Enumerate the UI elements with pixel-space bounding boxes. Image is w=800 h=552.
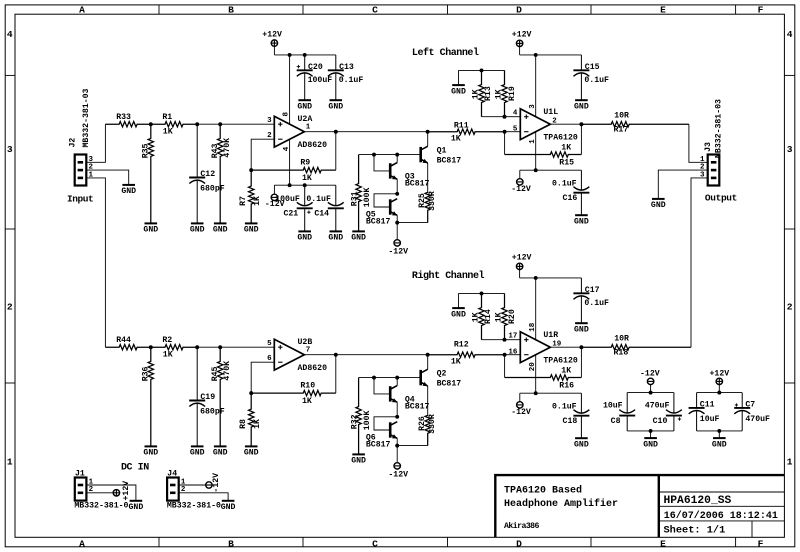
svg-text:GND: GND [244,226,259,235]
junction Q2 collector node [426,353,430,357]
svg-text:1K: 1K [163,127,173,136]
wire -12V cap bottom rail [627,430,674,432]
ground GND at R43 [213,223,228,234]
junction +12V cap gnd [717,429,721,433]
svg-text:470uF: 470uF [645,402,670,411]
capacitor C17 0.1uF [573,278,609,323]
wire Q3 base [374,155,390,171]
junction U1L pin1 supply [534,168,538,172]
junction U1L inverting node [503,130,507,134]
svg-text:R20: R20 [508,309,517,324]
ground GND at R8 [244,446,259,457]
svg-text:GND: GND [121,187,136,196]
svg-text:10uF: 10uF [603,402,623,411]
junction node after R44 [149,345,153,349]
svg-text:GND: GND [213,226,228,235]
resistor R44 [105,336,150,350]
svg-text:C10: C10 [653,417,668,426]
title block frame [495,475,784,537]
svg-text:+12V: +12V [262,31,282,40]
wire to gnd [650,431,652,438]
wire Q4 base [374,378,390,394]
capacitor C7 470uF [734,393,770,431]
svg-text:J4: J4 [167,470,177,479]
power -12V at U1R [511,393,531,417]
svg-text:BC817: BC817 [405,403,430,412]
svg-text:C21: C21 [283,210,298,219]
svg-text:Q2: Q2 [437,369,447,378]
svg-text:R19: R19 [508,86,517,101]
resistor R35 [142,124,154,223]
svg-text:1K: 1K [561,143,571,152]
svg-text:GND: GND [574,326,589,335]
op-amp U1L TPA6120 [513,104,578,144]
svg-text:GND: GND [297,234,312,243]
svg-text:GND: GND [451,87,466,96]
svg-text:R11: R11 [454,122,469,131]
junction R9 left node [249,168,253,172]
svg-text:R1: R1 [162,113,172,122]
svg-text:BC817: BC817 [366,218,391,227]
svg-text:E: E [660,4,666,15]
resistor R2 1K [151,336,197,359]
wire base rail right [359,377,421,379]
transistor Q6 BC817 [366,422,398,450]
svg-text:1K: 1K [302,174,312,183]
svg-text:1: 1 [7,457,13,468]
svg-text:0.1uF: 0.1uF [584,299,609,308]
wire U2A output [304,131,427,133]
junction R20 bottom [503,338,507,342]
ground GND at C18 [574,438,589,449]
wire node C12 to R43 node [197,123,220,125]
wire J3 pin2 to ground [658,170,707,199]
svg-text:C13: C13 [339,63,354,72]
svg-text:1K: 1K [561,366,571,375]
svg-text:100uF: 100uF [275,195,300,204]
svg-text:2: 2 [787,302,793,313]
connector J3 (MB332-381-03) Output [700,99,737,203]
svg-text:J2: J2 [69,138,78,148]
ground GND at R7 [244,223,259,234]
junction R13 top [480,68,484,72]
svg-text:BC817: BC817 [437,380,462,389]
svg-text:GND: GND [190,449,205,458]
ground GND at divider L [451,85,466,96]
svg-text:U2A: U2A [298,115,313,124]
heading Right Channel [412,270,485,282]
ground GND at R31 [351,231,366,242]
ground GND at R45 [213,446,228,457]
capacitor C21 100uF [275,185,312,231]
resistor R36 [142,347,154,446]
svg-text:4: 4 [787,29,793,40]
svg-text:R13: R13 [484,86,493,101]
resistor R12 1K [428,341,505,367]
svg-text:3: 3 [787,144,793,155]
svg-text:R18: R18 [614,349,629,358]
svg-text:17: 17 [508,333,517,341]
svg-text:U1L: U1L [543,108,558,117]
wire +12V rail to C17 [520,277,582,279]
wire U2B pin6 to feedback node [251,362,274,393]
junction U2B output node [334,353,338,357]
svg-text:GND: GND [351,457,366,466]
wire R15 to U1L output [580,124,582,154]
svg-text:GND: GND [143,449,158,458]
resistor R31 100K [350,155,372,232]
ground GND at C17 [574,323,589,334]
svg-text:MB332-381-0: MB332-381-0 [167,502,221,511]
svg-text:Input: Input [67,193,93,204]
svg-text:C17: C17 [585,286,600,295]
transistor Q2 BC817 [421,369,462,388]
svg-text:0.1uF: 0.1uF [584,76,609,85]
svg-text:BC817: BC817 [405,180,430,189]
resistor R43 470K [211,124,232,223]
svg-text:C15: C15 [585,63,600,72]
svg-text:470K: 470K [223,138,232,158]
svg-text:1K: 1K [253,419,262,429]
svg-text:+12V: +12V [512,31,532,40]
power +12V at U2A [262,31,282,55]
wire J1 pin1 to ground [86,485,135,501]
svg-text:D: D [516,4,522,15]
wire Q1 collector [427,132,429,147]
svg-text:R26: R26 [418,416,427,431]
capacitor C18 0.1uF [552,393,589,438]
resistor R7 1K [239,170,262,223]
wire Q4 emitter [396,402,398,417]
svg-text:C8: C8 [611,417,621,426]
svg-text:3: 3 [7,144,13,155]
svg-text:C: C [372,538,378,549]
wire Q3 collector [396,155,398,163]
wire to gnd2 [718,431,720,438]
wire R17 to J3 pin 1 [689,124,708,162]
svg-text:U2B: U2B [298,338,313,347]
svg-text:BC817: BC817 [437,157,462,166]
svg-text:GND: GND [574,441,589,450]
svg-text:0.1uF: 0.1uF [552,180,577,189]
ground GND at C16 [574,215,589,226]
wire Q6 base [374,417,397,430]
wire divider top rail right [459,292,505,294]
svg-text:AD8620: AD8620 [298,141,328,150]
svg-text:1K: 1K [163,350,173,359]
resistor R10 1K feedback [251,381,336,406]
wire J2 pin2 to ground [86,170,128,185]
ground GND at C12 [190,223,205,234]
junction node C19 [195,345,199,349]
op-amp U2B AD8620 [267,338,327,373]
svg-text:GND: GND [574,103,589,112]
power -12V at Q5 [388,223,408,257]
ground GND at divider R [451,308,466,319]
ground GND at R36 [143,446,158,457]
svg-text:GND: GND [244,449,259,458]
resistor R20 1K [495,293,518,339]
svg-text:GND: GND [190,226,205,235]
svg-text:16: 16 [508,348,518,356]
power -12V at Q6 [388,446,408,480]
svg-text:2: 2 [7,302,13,313]
ground GND at C13 [328,100,343,111]
svg-text:10uF: 10uF [700,415,720,424]
resistor R32 100K [350,378,372,455]
junction U2A pin4 supply [288,183,292,187]
op-amp U2A AD8620 [267,112,327,152]
wire emitter node to R25 bottom [397,222,428,224]
wire J1 pin2 to +12V [86,492,113,494]
junction Q1 collector node [426,130,430,134]
capacitor C13 0.1uF [328,55,364,100]
capacitor C20 100uF [297,55,333,100]
junction node R45 [218,345,222,349]
junction Q6 collector node [395,415,399,419]
power -12V at C8 C10 [640,370,660,393]
junction U1R inverting node [503,353,507,357]
svg-text:GND: GND [574,218,589,227]
wire Q5 emitter to -12V node [396,215,398,222]
wire -12V rail to C16 [520,169,582,171]
svg-text:C16: C16 [563,194,578,203]
junction node C12 [195,122,199,126]
title text date [664,510,778,522]
ground GND at C21 [297,231,312,242]
ground GND at R32 [351,454,366,465]
svg-text:C20: C20 [308,63,323,72]
svg-text:R45: R45 [211,366,220,381]
power +12V at J1 [113,481,131,501]
svg-text:F: F [758,4,764,15]
junction Q3 base node [372,153,376,157]
svg-text:B: B [228,538,234,549]
svg-text:TPA6120: TPA6120 [543,357,577,366]
junction U1R pin20 supply [534,391,538,395]
svg-text:1: 1 [700,156,705,164]
ground GND at J3 pin2 [651,199,666,210]
heading Left Channel [412,47,479,59]
svg-text:Sheet: 1/1: Sheet: 1/1 [664,524,726,536]
ground GND at C14 [328,231,343,242]
svg-text:1K: 1K [495,89,504,99]
svg-text:Q1: Q1 [437,146,447,155]
junction R14 top [480,291,484,295]
svg-text:Right Channel: Right Channel [412,270,485,282]
resistor R16 1K [505,366,582,390]
svg-text:100K: 100K [363,411,372,431]
svg-text:470uF: 470uF [745,415,770,424]
resistor R25 330R [418,191,437,222]
svg-text:U1R: U1R [543,331,558,340]
svg-text:TPA6120: TPA6120 [543,134,577,143]
wire R9 to U2A output node [335,132,337,170]
junction U1L output node [579,122,583,126]
wire J2 pin1 down to right channel input [86,178,105,347]
wire Q3 emitter [396,179,398,194]
power +12V at U1R [512,254,532,278]
svg-text:2: 2 [267,132,272,140]
wire U1L pin5 to R15 [504,132,506,155]
resistor R26 330R [418,414,437,445]
svg-text:Left Channel: Left Channel [412,47,479,59]
junction emitter -12V node [395,221,399,225]
svg-text:100uF: 100uF [308,76,333,85]
capacitor C10 470uF [645,393,682,431]
svg-text:+12V: +12V [710,370,730,379]
svg-text:GND: GND [328,234,343,243]
svg-text:-12V: -12V [388,247,408,256]
power -12V at J4 [206,473,221,493]
svg-text:1K: 1K [472,312,481,322]
title text TPA6120 Based [504,485,582,497]
wire divider bottom rail right [482,339,505,341]
wire -12V rail [274,184,335,186]
wire U1L output [550,123,581,125]
wire divider bottom rail [482,116,505,118]
svg-text:+12V: +12V [122,481,131,501]
connector J4 (MB332-381-0) DC IN -12V [167,470,221,511]
svg-text:BC817: BC817 [366,441,391,450]
wire Q5 base [374,194,397,207]
svg-text:R12: R12 [454,341,469,350]
svg-text:6: 6 [267,355,272,363]
svg-text:R9: R9 [300,158,310,167]
svg-text:GND: GND [297,103,312,112]
svg-text:10R: 10R [614,334,629,343]
svg-text:Akira386: Akira386 [504,521,540,531]
wire U1R output [550,346,581,348]
resistor R8 1K [239,393,262,446]
svg-text:0.1uF: 0.1uF [306,195,331,204]
svg-text:R43: R43 [211,143,220,158]
svg-text:C12: C12 [200,170,215,179]
junction R19 bottom [503,115,507,119]
wire J3 pin3 to right channel output [691,178,708,347]
wire node C19 to R45 node [197,346,220,348]
resistor R19 1K [495,70,518,116]
svg-text:3: 3 [267,117,272,125]
wire -12V rail to C18 [520,392,582,394]
svg-text:R14: R14 [484,309,493,324]
svg-text:1K: 1K [302,397,312,406]
ground GND at C15 [574,100,589,111]
svg-text:GND: GND [712,440,727,449]
junction Q5 collector node [395,192,399,196]
transistor Q3 BC817 [390,163,429,189]
capacitor C8 10uF [603,393,635,431]
svg-text:C19: C19 [200,393,215,402]
wire divider to U1L pin 4 [505,116,521,118]
junction U1L pin3 supply [534,53,538,57]
svg-text:R2: R2 [162,336,172,345]
junction U1R output node [579,345,583,349]
svg-text:5: 5 [267,340,272,348]
svg-text:C: C [372,4,378,15]
wire to U2B noninverting input pin 5 [220,346,274,348]
ground GND at J1 pin1 [129,501,144,512]
wire Q6 emitter to -12V node [396,438,398,445]
wire supply to U1R pin 18 [535,278,537,340]
ground GND at J4 pin2 [221,501,236,512]
svg-text:R44: R44 [116,336,131,345]
junction +12V cap rail [717,391,721,395]
wire Q2 emitter to R26 [427,386,429,415]
svg-text:GND: GND [129,503,144,512]
svg-text:C14: C14 [314,210,329,219]
resistor R18 10R [581,334,691,357]
svg-text:7: 7 [306,347,311,355]
svg-text:1K: 1K [253,196,262,206]
svg-text:GND: GND [351,234,366,243]
wire Q4 collector [396,378,398,386]
svg-text:R17: R17 [614,126,629,135]
transistor Q5 BC817 [366,199,398,227]
svg-text:330R: 330R [428,191,437,211]
ground GND at J2 pin2 [121,185,136,196]
svg-text:680pF: 680pF [200,408,225,417]
svg-text:MB332-381-0: MB332-381-0 [74,502,128,511]
svg-text:-12V: -12V [511,408,531,417]
svg-text:Headphone Amplifier: Headphone Amplifier [504,498,618,510]
wire emitter node to R26 bottom [397,445,428,447]
ground GND at R35 [143,223,158,234]
svg-text:R25: R25 [418,193,427,208]
junction U2A pin8 supply [288,53,292,57]
svg-text:4: 4 [513,110,518,118]
svg-text:GND: GND [643,440,658,449]
svg-text:680pF: 680pF [200,185,225,194]
svg-text:R7: R7 [239,196,248,206]
svg-text:A: A [79,4,85,15]
wire U2A pin 4 to -12V rail [289,139,291,185]
wire U1L pin 1 to -12V rail [535,132,537,170]
wire J4 pin2 to ground [179,493,228,501]
svg-text:D: D [516,538,522,549]
ground GND at C19 [190,446,205,457]
junction U2A output node [334,130,338,134]
transistor Q4 BC817 [390,386,429,412]
junction U1R pin18 supply [534,276,538,280]
wire U1R pin16 to R16 [504,355,506,378]
svg-text:R32: R32 [350,414,359,429]
junction Q4 base node [372,376,376,380]
junction R10 left node [249,391,253,395]
ground GND at C11 C7 [712,438,727,449]
capacitor C12 680pF [189,124,225,223]
junction node after R33 [149,122,153,126]
title text Sheet 1/1 [664,524,726,536]
resistor R15 1K [505,143,582,167]
capacitor C15 0.1uF [573,55,609,100]
svg-text:R31: R31 [350,191,359,206]
svg-text:R36: R36 [142,366,151,381]
resistor R33 [105,113,150,127]
svg-text:HPA6120_SS: HPA6120_SS [664,495,732,507]
junction C20 top [303,53,307,57]
svg-text:MB332-381-03: MB332-381-03 [82,88,91,147]
svg-text:E: E [660,538,666,549]
wire Q2 collector [427,355,429,370]
wire R12 to U1R pin 16 [505,354,521,356]
svg-text:1K: 1K [451,135,461,144]
wire supply to U1L pin 3 [535,55,537,117]
junction -12V cap gnd [649,429,653,433]
op-amp U1R TPA6120 [508,322,577,371]
junction node R43 [218,122,222,126]
svg-text:-12V: -12V [640,370,660,379]
